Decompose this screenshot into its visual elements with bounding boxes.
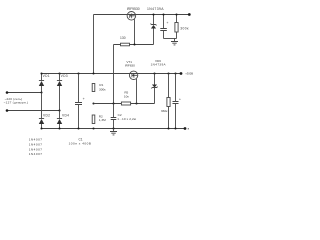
wire bottom rail	[42, 128, 186, 130]
diode VD4	[57, 111, 62, 129]
svg-text:+: +	[83, 97, 85, 101]
wire input line2	[7, 110, 60, 112]
svg-text:10к: 10к	[124, 94, 129, 98]
node bottom C1	[77, 127, 79, 129]
ground bottom C2	[110, 129, 117, 135]
svg-text:1N4007: 1N4007	[29, 147, 43, 151]
resistor R5	[121, 102, 130, 105]
node rail x94	[92, 72, 94, 74]
wire input line1	[7, 92, 42, 94]
svg-text:1N4739A: 1N4739A	[151, 63, 167, 67]
wire cap-res bottom	[164, 38, 177, 40]
svg-text:1,3М: 1,3М	[99, 118, 106, 122]
diode VD1	[39, 74, 44, 93]
wire gate bus y104	[94, 103, 155, 105]
capacitor C1 polarized	[75, 74, 85, 129]
node res top	[175, 13, 177, 15]
node rail out cap	[174, 72, 176, 74]
svg-text:+: +	[179, 97, 181, 101]
svg-text:R1: R1	[99, 83, 103, 87]
svg-text:~127 (дежурн.): ~127 (дежурн.)	[4, 101, 29, 105]
resistor output bleeder	[167, 74, 170, 129]
node zener top	[152, 13, 154, 15]
resistor R1	[92, 84, 95, 92]
diode VD2	[39, 119, 44, 129]
svg-text:360к: 360к	[161, 109, 168, 113]
resistor 300k top-right	[175, 15, 178, 39]
transistor VT2	[127, 12, 136, 21]
svg-text:IRF830: IRF830	[125, 63, 135, 67]
wire VT1 gate down	[136, 79, 138, 104]
wire left bus vertical x94	[93, 15, 95, 74]
capacitor C2	[111, 104, 117, 129]
node input2 tap	[58, 109, 60, 111]
node divider mid	[92, 102, 94, 104]
svg-text:1N4007: 1N4007	[29, 137, 43, 141]
svg-text:+300В: +300В	[185, 72, 193, 76]
svg-text:300к: 300к	[180, 27, 189, 31]
diode VD3	[57, 74, 62, 111]
capacitor output polarized	[173, 74, 182, 129]
ground top-right	[171, 39, 178, 45]
wire gate VT2	[134, 19, 136, 44]
svg-text:130: 130	[120, 36, 126, 40]
svg-text:1N4007: 1N4007	[29, 152, 43, 156]
svg-text:VD3: VD3	[61, 74, 68, 78]
node output minus terminal	[184, 127, 187, 130]
node bottom VD4	[58, 127, 60, 129]
node bottom C2	[112, 127, 114, 129]
svg-text:100н х 400В: 100н х 400В	[69, 142, 92, 146]
svg-text:300к: 300к	[99, 87, 106, 91]
node VT1 source junction	[135, 102, 137, 104]
svg-text:IRF9530: IRF9530	[127, 7, 140, 11]
wire divider feed vertical x114	[113, 45, 115, 104]
node input2 terminal	[6, 109, 9, 112]
svg-text:1...10 х 2,2м: 1...10 х 2,2м	[117, 117, 136, 121]
node cap top	[162, 13, 164, 15]
node input1 tap	[40, 91, 42, 93]
capacitor C3 polarized top-right	[160, 15, 168, 39]
svg-text:1N4739A: 1N4739A	[147, 7, 164, 11]
wire branchA lower	[41, 93, 43, 119]
svg-text:VD2: VD2	[43, 113, 50, 117]
node bottom out cap	[174, 127, 176, 129]
svg-text:VD4: VD4	[62, 113, 69, 117]
node rail zener	[153, 72, 155, 74]
resistor 130	[114, 43, 154, 46]
wire mid rail raw plus	[42, 73, 182, 75]
node x114 on gate bus	[112, 102, 114, 104]
node input1 terminal	[6, 91, 9, 94]
node output plus mid	[180, 72, 183, 75]
node rail out res	[167, 72, 169, 74]
node gate junction	[133, 43, 135, 45]
resistor R2	[92, 115, 95, 124]
node rail VD1 corner	[40, 72, 42, 74]
node bottom out res	[167, 127, 169, 129]
node rail x78.7	[77, 72, 79, 74]
node bottom VD2	[40, 127, 42, 129]
svg-text:VD1: VD1	[43, 74, 50, 78]
wire top rail	[94, 14, 190, 16]
zener VD6	[151, 74, 157, 104]
svg-text:в: в	[188, 127, 190, 131]
svg-text:1N4007: 1N4007	[29, 142, 43, 146]
zener VD5	[151, 15, 157, 45]
svg-text:+: +	[166, 21, 168, 25]
transistor VT1	[129, 71, 137, 79]
node bottom R2	[92, 127, 94, 129]
node output plus top	[188, 13, 191, 16]
node rail x59.5	[58, 72, 60, 74]
